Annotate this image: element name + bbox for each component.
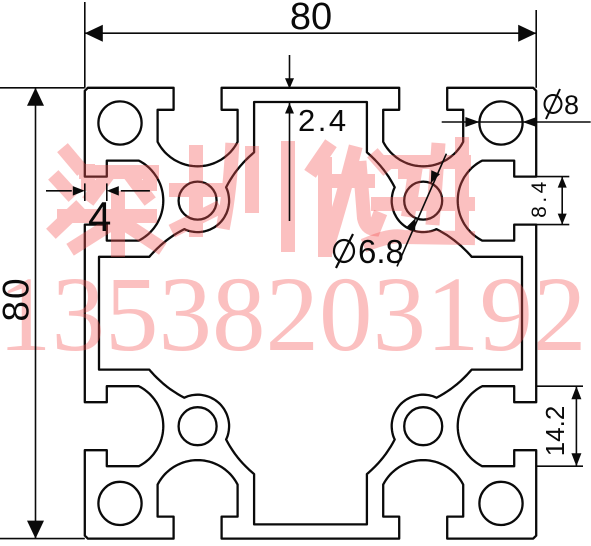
svg-text:8.4: 8.4 [528, 178, 551, 218]
svg-text:14.2: 14.2 [540, 406, 570, 457]
svg-text:8: 8 [564, 90, 579, 120]
svg-text:6.8: 6.8 [358, 233, 404, 270]
svg-text:2.4: 2.4 [298, 103, 349, 138]
svg-text:80: 80 [290, 0, 332, 38]
svg-text:4: 4 [88, 193, 111, 240]
svg-text:13538203192: 13538203192 [0, 256, 587, 374]
svg-text:80: 80 [0, 276, 37, 321]
